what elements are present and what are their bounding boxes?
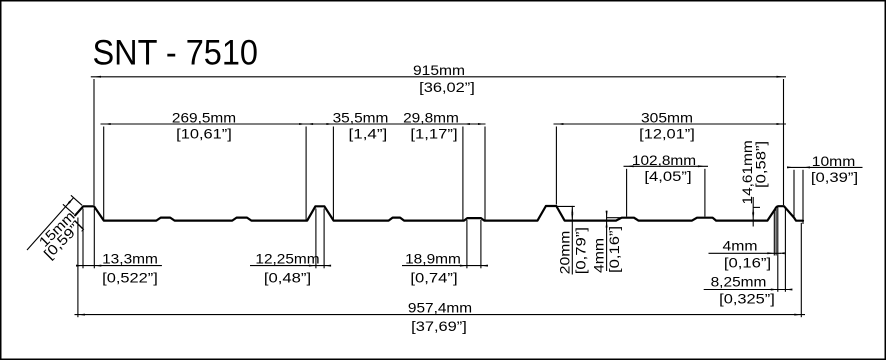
svg-text:[36,02”]: [36,02”] (419, 79, 475, 95)
svg-text:[0,48”]: [0,48”] (264, 269, 311, 285)
svg-text:[0,16”]: [0,16”] (724, 254, 771, 270)
svg-text:957,4mm: 957,4mm (408, 299, 472, 315)
svg-text:SNT - 7510: SNT - 7510 (93, 32, 259, 72)
svg-text:[12,01”]: [12,01”] (639, 126, 695, 142)
svg-text:102,8mm: 102,8mm (632, 152, 696, 168)
svg-text:12,25mm: 12,25mm (255, 250, 319, 266)
svg-text:20mm: 20mm (557, 231, 573, 275)
svg-text:269,5mm: 269,5mm (172, 110, 236, 126)
svg-text:[37,69”]: [37,69”] (411, 318, 467, 334)
svg-text:[10,61”]: [10,61”] (176, 126, 232, 142)
svg-text:35,5mm: 35,5mm (333, 110, 389, 126)
svg-text:10mm: 10mm (812, 153, 856, 169)
svg-text:305mm: 305mm (641, 110, 693, 126)
svg-text:4mm: 4mm (723, 238, 758, 254)
svg-text:[0,79”]: [0,79”] (573, 227, 589, 274)
svg-text:[0,522”]: [0,522”] (102, 269, 158, 285)
svg-text:[1,4”]: [1,4”] (349, 126, 388, 142)
svg-text:[0,16”]: [0,16”] (606, 226, 622, 273)
svg-text:[0,39”]: [0,39”] (811, 169, 858, 185)
svg-text:29,8mm: 29,8mm (403, 110, 459, 126)
svg-text:[0,325”]: [0,325”] (719, 291, 775, 307)
svg-text:[1,17”]: [1,17”] (410, 126, 457, 142)
svg-text:[0,74”]: [0,74”] (410, 269, 457, 285)
svg-text:4mm: 4mm (591, 238, 607, 273)
svg-text:13,3mm: 13,3mm (102, 250, 158, 266)
svg-text:[4,05”]: [4,05”] (644, 168, 691, 184)
svg-text:915mm: 915mm (413, 62, 465, 78)
svg-text:[0,58”]: [0,58”] (753, 141, 769, 188)
svg-text:18,9mm: 18,9mm (405, 250, 461, 266)
svg-text:8,25mm: 8,25mm (711, 273, 767, 289)
